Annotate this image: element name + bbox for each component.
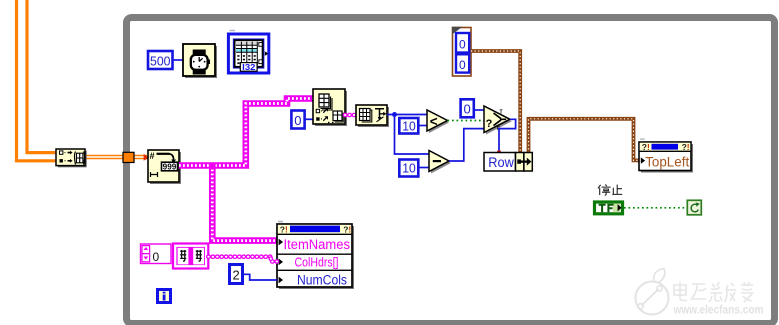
number to decimal string node — [148, 150, 181, 184]
iteration terminal i — [158, 290, 171, 303]
numeric constant 500 — [148, 51, 173, 69]
multicolumn listbox terminal — [228, 34, 268, 73]
string element glyph 2 — [196, 250, 202, 261]
bundle by name node Row — [484, 153, 532, 172]
subtract node — [429, 151, 451, 174]
svg-text:I32: I32 — [242, 62, 255, 72]
svg-text:T: T — [500, 110, 503, 116]
wire: 500 to wait — [173, 59, 183, 61]
wire: orange 1D array into build array (lower) — [17, 0, 58, 161]
numeric constant 10 (lower) — [399, 160, 418, 177]
svg-text:NumCols: NumCols — [297, 272, 347, 287]
svg-text:0: 0 — [459, 58, 466, 72]
array size node — [356, 105, 389, 127]
svg-text:10: 10 — [402, 118, 416, 133]
index array node — [313, 89, 347, 126]
junction on string wire — [209, 162, 215, 168]
less than node — [427, 110, 449, 133]
svg-text:?!: ?! — [682, 142, 690, 152]
svg-text:Row: Row — [488, 155, 514, 170]
select node — [484, 106, 512, 135]
wire: 2D string array branch down to ItemNames — [212, 166, 277, 241]
svg-text:ItemNames: ItemNames — [284, 237, 351, 252]
wire: 0 to index array — [304, 118, 314, 120]
wire: 10 to less-than — [419, 125, 428, 127]
listbox property node (ItemNames / ColHdrs / NumCols) — [277, 224, 354, 289]
wire: 2D string array from converter to index array — [179, 99, 314, 166]
wire: boolean from less-than to select — [448, 120, 488, 122]
wait (ms) node — [183, 44, 217, 78]
wire: 1D string array from index array to array size — [345, 113, 357, 118]
wire: 10 to subtract — [419, 167, 430, 169]
svg-text:10: 10 — [402, 161, 416, 176]
cluster constant 0,0 — [452, 27, 471, 76]
wire: subtract output to select f input — [449, 129, 490, 161]
svg-text:0: 0 — [153, 250, 160, 264]
wire: select output down to bundle Row — [499, 119, 516, 152]
numeric constant 2 — [230, 265, 243, 284]
coercion dot — [497, 151, 501, 154]
numeric constant 0 (select) — [461, 99, 474, 117]
TopLeft property node label remnant — [640, 138, 645, 140]
wire: bundle output to TopLeft property — [529, 119, 641, 161]
svg-text:?: ? — [486, 118, 493, 130]
property node label remnant — [278, 221, 283, 223]
numeric constant 10 (upper) — [399, 118, 418, 134]
multicolumn listbox terminal label remnant — [230, 30, 236, 32]
wire: orange 2D array build-array output to tunnel to node — [86, 155, 147, 159]
TopLeft property node — [639, 142, 693, 173]
string array constant: element frame — [173, 244, 208, 269]
svg-text:999: 999 — [163, 162, 177, 171]
stop label (ting zhi) — [598, 184, 622, 195]
svg-text:www.elecfans.com: www.elecfans.com — [673, 304, 764, 316]
loop tunnel (orange) — [123, 152, 134, 162]
wire: array size output — [387, 114, 428, 116]
svg-text:0: 0 — [294, 113, 301, 128]
build array node — [56, 149, 87, 167]
wire: branch down to decrement — [395, 115, 431, 155]
while loop border — [127, 18, 775, 324]
svg-text:?!: ?! — [343, 225, 351, 235]
svg-text:TopLeft: TopLeft — [645, 154, 689, 169]
wire: boolean to loop condition — [624, 207, 687, 209]
junction dot — [392, 112, 397, 117]
numeric constant 0 (index) — [291, 111, 304, 129]
wire: orange 1D array into build array (upper) — [27, 0, 57, 153]
svg-text:0: 0 — [459, 38, 466, 52]
string array constant (column headers) : index display — [141, 244, 172, 264]
svg-text:#: # — [150, 151, 155, 161]
loop condition terminal (continue if true) — [687, 200, 701, 215]
svg-text:?!: ?! — [642, 142, 650, 152]
svg-text:0: 0 — [464, 102, 471, 117]
red input arrow on number-to-string node — [144, 154, 150, 161]
wire: 0 to select t input — [474, 109, 489, 111]
wire: cluster to bundle node — [471, 51, 520, 153]
watermark text: dianzi fashaoyou — [674, 282, 754, 302]
svg-text:ColHdrs[]: ColHdrs[] — [295, 254, 339, 269]
svg-text:<: < — [430, 114, 438, 129]
wire: 1D string array to ColHdrs — [208, 257, 277, 262]
string element glyph 1 — [180, 250, 186, 261]
svg-text:?!: ?! — [280, 225, 288, 235]
watermark logo circle — [636, 269, 669, 315]
svg-text:2: 2 — [233, 268, 240, 283]
wire: 2 to NumCols — [243, 274, 277, 280]
stop boolean terminal — [595, 202, 623, 214]
svg-text:500: 500 — [150, 53, 171, 68]
